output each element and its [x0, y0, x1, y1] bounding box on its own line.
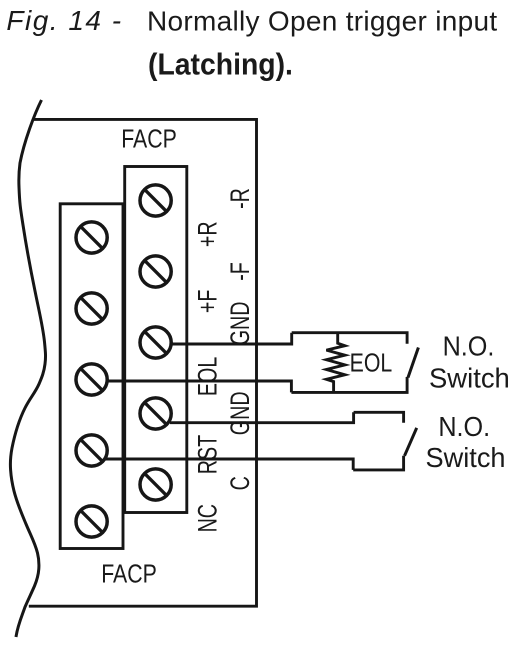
svg-text:+R: +R [194, 221, 224, 247]
wire RST to switch2 bottom [106, 459, 354, 470]
screw terminal R3 (GND) [140, 327, 171, 358]
svg-text:Normally Open trigger input: Normally Open trigger input [147, 6, 497, 37]
svg-text:EOL: EOL [350, 349, 393, 379]
svg-text:NC: NC [194, 504, 224, 532]
wire EOL to switch1 bottom [108, 381, 292, 392]
svg-text:Switch: Switch [429, 362, 508, 393]
screw terminal R5 (C) [140, 469, 171, 500]
screw terminal R2 (-F) [140, 256, 171, 287]
svg-text:C: C [226, 476, 256, 490]
wire GND to switch1 top [171, 333, 292, 344]
resistor EOL [326, 332, 345, 394]
svg-text:Switch: Switch [426, 442, 506, 473]
svg-text:EOL: EOL [194, 357, 224, 396]
wire switch1 bottom rail [291, 377, 407, 392]
wire switch2 top rail [354, 412, 404, 422]
terminal block left (outer) [60, 204, 123, 549]
screw terminal L4 (RST) [76, 435, 107, 466]
screw terminal R4 (GND) [140, 398, 171, 429]
svg-text:FACP: FACP [101, 560, 157, 588]
switch 2 blade [405, 428, 417, 456]
screw terminal L2 (+F) [76, 293, 107, 324]
svg-text:-R: -R [226, 188, 256, 209]
svg-text:Fig. 14 -: Fig. 14 - [6, 5, 122, 36]
wire GND2 to switch2 top [170, 412, 354, 422]
svg-text:N.O.: N.O. [443, 330, 495, 362]
wire switch2 bottom rail [353, 456, 403, 470]
wire switch1 top rail [292, 333, 407, 344]
screw terminal L5 (NC) [76, 506, 107, 537]
screw terminal R1 (-R) [140, 185, 171, 216]
terminal block right (inner) [125, 167, 187, 513]
screw terminal L3 (EOL) [76, 364, 107, 395]
switch 1 blade [408, 348, 418, 378]
screw terminal L1 (+R) [76, 222, 107, 253]
svg-text:GND: GND [226, 302, 256, 346]
svg-text:RST: RST [194, 435, 224, 474]
svg-text:GND: GND [226, 391, 256, 435]
FACP box (top, right, bottom edges) [29, 119, 257, 606]
svg-text:-F: -F [226, 262, 256, 281]
svg-text:FACP: FACP [121, 125, 177, 153]
torn-page wavy line [10, 100, 45, 637]
svg-text:N.O.: N.O. [438, 411, 490, 443]
svg-text:(Latching).: (Latching). [148, 47, 293, 81]
svg-text:+F: +F [194, 290, 224, 314]
